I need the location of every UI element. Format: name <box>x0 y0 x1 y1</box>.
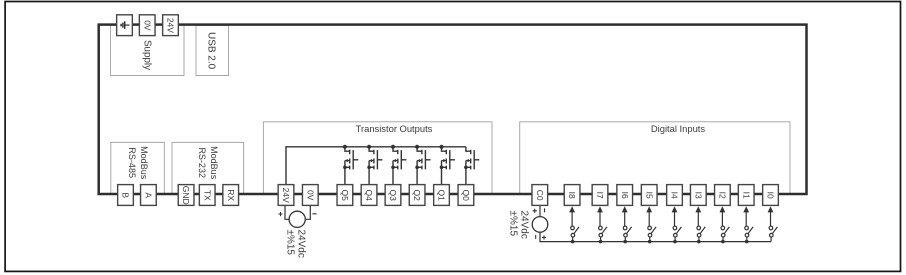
terminal Q2 <box>409 185 425 206</box>
svg-text:RS-485: RS-485 <box>127 147 137 178</box>
terminal 0V (outputs) <box>302 185 318 206</box>
svg-text:24Vdc: 24Vdc <box>519 211 530 239</box>
svg-text:I4: I4 <box>670 192 680 199</box>
svg-text:I6: I6 <box>620 192 630 199</box>
voltage source 24Vdc (outputs) <box>289 211 305 227</box>
terminal RX (RS-232) <box>223 185 239 206</box>
svg-text:ModBus: ModBus <box>209 146 219 180</box>
ModBus RS-232 block box <box>172 142 244 194</box>
switch input I0 (arrow + contact) <box>768 206 778 241</box>
svg-text:24V: 24V <box>166 18 176 33</box>
svg-text:Q0: Q0 <box>461 190 471 202</box>
terminal I6 <box>617 185 633 206</box>
svg-text:24Vdc: 24Vdc <box>296 230 307 258</box>
svg-text:Q2: Q2 <box>412 190 422 202</box>
switch input I5 (arrow + contact) <box>646 206 656 243</box>
switch input I8 (arrow + contact) <box>569 206 579 243</box>
svg-text:B: B <box>121 192 131 198</box>
Digital Inputs section box <box>520 122 790 194</box>
transistor Q2 (N-MOSFET) <box>415 145 431 185</box>
svg-text:A: A <box>144 192 154 198</box>
transistor Q0 (N-MOSFET) <box>464 147 479 185</box>
switch input I7 (arrow + contact) <box>597 206 607 243</box>
svg-text:Q5: Q5 <box>340 190 350 202</box>
terminal 0V (supply) <box>139 15 155 36</box>
terminal B (RS-485) <box>118 185 134 206</box>
transistor Q3 (N-MOSFET) <box>391 145 407 185</box>
svg-text:C0: C0 <box>535 190 545 201</box>
PLC device outline (thick rectangle, bottom edge = terminal line) <box>99 25 807 194</box>
earth symbol (rotated ground) <box>121 21 130 29</box>
polarity - (inputs supply, top-right) <box>544 208 546 212</box>
terminal GND (RS-232) <box>178 185 194 206</box>
svg-text:Supply: Supply <box>142 40 153 70</box>
terminal I3 <box>690 185 706 206</box>
svg-text:RX: RX <box>226 189 236 201</box>
Transistor Outputs section box <box>263 122 492 194</box>
wire: 24V riser and drain rail <box>286 147 466 185</box>
svg-text:ModBus: ModBus <box>139 146 149 180</box>
svg-text:Q3: Q3 <box>388 190 398 202</box>
svg-text:I2: I2 <box>718 192 728 199</box>
svg-text:24V: 24V <box>281 188 291 203</box>
USB 2.0 block box <box>196 26 229 76</box>
svg-text:Q1: Q1 <box>437 190 447 202</box>
wire: 24V terminal to output supply + <box>285 205 289 219</box>
wire: input common bottom rail <box>540 232 771 241</box>
polarity + (outputs supply) <box>278 212 282 216</box>
svg-text:TX: TX <box>202 190 212 201</box>
terminal I5 <box>641 185 657 206</box>
terminal I4 <box>667 185 683 206</box>
switch input I4 (arrow + contact) <box>672 206 682 243</box>
switch input I2 (arrow + contact) <box>720 206 730 243</box>
terminal I7 <box>592 185 608 206</box>
voltage source 24Vdc (inputs) <box>532 217 548 233</box>
svg-text:I1: I1 <box>741 192 751 199</box>
svg-text:Digital Inputs: Digital Inputs <box>651 123 706 134</box>
terminal Q0 <box>458 185 474 206</box>
transistor Q1 (N-MOSFET) <box>439 145 455 185</box>
Supply block box <box>111 25 185 76</box>
svg-text:GND: GND <box>181 186 191 205</box>
terminal Q5 <box>337 185 353 206</box>
polarity + (inputs supply, top-left) <box>533 209 537 213</box>
terminal earth <box>117 15 133 36</box>
svg-text:I7: I7 <box>595 192 605 199</box>
terminal 24V (supply) <box>163 15 179 36</box>
svg-text:RS-232: RS-232 <box>197 147 207 178</box>
transistor Q5 (N-MOSFET) <box>343 145 359 185</box>
polarity + (inputs supply, bottom-right) <box>542 235 546 239</box>
terminal Q3 <box>385 185 401 206</box>
svg-text:0V: 0V <box>305 190 315 201</box>
terminal I2 <box>715 185 731 206</box>
terminal TX (RS-232) <box>199 185 215 206</box>
svg-text:USB 2.0: USB 2.0 <box>206 32 217 70</box>
terminal Q4 <box>361 185 377 206</box>
switch input I3 (arrow + contact) <box>695 206 705 243</box>
svg-text:±%15: ±%15 <box>508 211 519 237</box>
terminal 24V (outputs) <box>278 185 294 206</box>
svg-text:I3: I3 <box>693 192 703 199</box>
svg-text:I8: I8 <box>567 192 577 199</box>
terminal I0 <box>763 185 779 206</box>
terminal I1 <box>738 185 754 206</box>
polarity - (inputs supply, bottom-left) <box>535 235 537 239</box>
svg-text:0V: 0V <box>142 20 152 31</box>
transistor Q4 (N-MOSFET) <box>367 145 382 185</box>
ModBus RS-485 block box <box>111 142 165 194</box>
svg-text:Transistor Outputs: Transistor Outputs <box>356 123 433 134</box>
switch input I1 (arrow + contact) <box>743 206 753 243</box>
terminal A (RS-485) <box>141 185 157 206</box>
svg-text:I0: I0 <box>766 192 776 199</box>
polarity - (outputs supply) <box>312 213 316 215</box>
svg-text:I5: I5 <box>644 192 654 199</box>
switch input I6 (arrow + contact) <box>622 206 632 243</box>
wire: 0V terminal to output supply - <box>305 205 310 219</box>
svg-text:Q4: Q4 <box>364 190 374 202</box>
terminal Q1 <box>434 185 450 206</box>
terminal C0 <box>532 185 548 206</box>
terminal I8 <box>564 185 580 206</box>
wire: C0 terminal to input supply <box>539 205 541 216</box>
svg-text:±%15: ±%15 <box>285 230 296 256</box>
